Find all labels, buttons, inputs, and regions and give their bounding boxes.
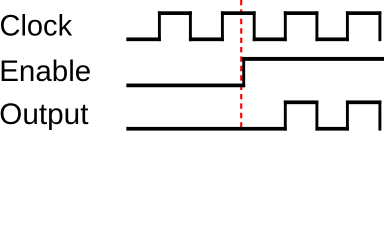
- svg-text:Enable: Enable: [0, 55, 91, 88]
- svg-text:Clock: Clock: [0, 9, 72, 43]
- wire Clock waveform: [126, 11, 381, 41]
- label Enable: [0, 55, 91, 88]
- label Clock: [0, 9, 72, 43]
- label Output: [0, 98, 89, 131]
- wire Enable waveform: [126, 57, 384, 87]
- wire Output waveform: [126, 100, 381, 130]
- svg-text:Output: Output: [0, 98, 89, 131]
- enable-point dashed marker line: [240, 0, 242, 129]
